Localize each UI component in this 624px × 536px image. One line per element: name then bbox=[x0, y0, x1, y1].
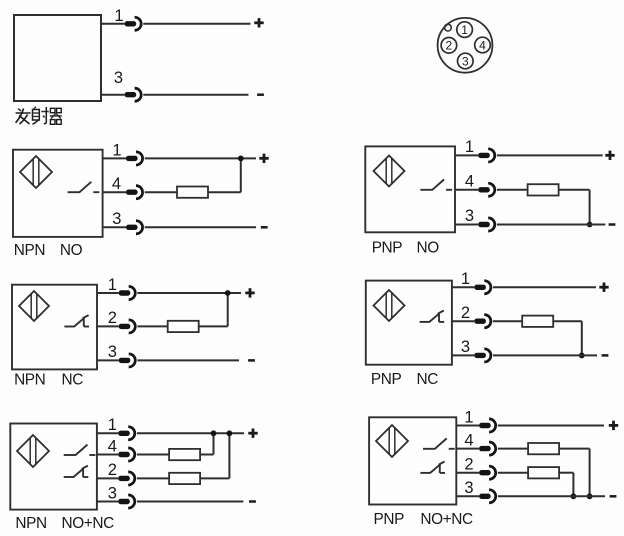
NPN-NO + terminal bbox=[259, 154, 268, 163]
PNP-NO+NC NC contact bbox=[420, 462, 445, 473]
PNP-NC pin 2 vertical wire bbox=[581, 321, 583, 355]
connector pin 2 circle bbox=[441, 38, 457, 54]
NPN-NC + terminal bbox=[245, 288, 254, 297]
svg-text:3: 3 bbox=[114, 69, 123, 87]
svg-text:1: 1 bbox=[112, 141, 121, 159]
svg-text:2: 2 bbox=[108, 461, 117, 479]
NPN-NC pin 2 contact pill bbox=[119, 324, 131, 329]
PNP-NO pin 3 contact pill bbox=[478, 222, 490, 227]
PNP-NO pin 4 contact pill bbox=[478, 187, 490, 192]
PNP-NO+NC pin 3 contact pill bbox=[479, 494, 491, 499]
label 发射器 (transmitter) bbox=[16, 107, 62, 125]
PNP-NO+NC + terminal bbox=[609, 421, 618, 430]
PNP-NC pin 2 contact pill bbox=[474, 319, 486, 324]
NPN-NO+NC pin 2 wire from box bbox=[97, 477, 118, 479]
NPN-NO pin 1 wire from box bbox=[103, 157, 126, 159]
PNP-NO pin 4 socket arc bbox=[488, 183, 495, 196]
PNP-NC pin 1 wire from box bbox=[452, 286, 474, 288]
NPN-NC pin 1 wire to terminal bbox=[137, 292, 241, 294]
PNP-NC junction dot pin 2 bbox=[579, 353, 585, 359]
NPN-NC pin 2 wire load to vertical bbox=[199, 325, 228, 327]
NPN-NO pin 4 wire to load bbox=[145, 191, 177, 193]
NPN-NO+NC pin 2 wire load to vertical bbox=[200, 477, 229, 479]
NPN-NO pin 1 contact pill bbox=[126, 156, 138, 161]
NPN-NO+NC pin 3 socket arc bbox=[128, 495, 135, 508]
svg-text:NPN: NPN bbox=[15, 515, 46, 532]
PNP-NC pin 2 socket arc bbox=[484, 315, 491, 328]
PNP-NO junction dot pin 4 bbox=[587, 222, 593, 228]
PNP-NO+NC sensor symbol (diamond) bbox=[376, 425, 408, 457]
PNP-NO+NC pin 1 wire from box bbox=[456, 425, 479, 427]
PNP-NO pin 1 wire to terminal bbox=[497, 154, 603, 156]
PNP-NO+NC pin 4 vertical wire bbox=[589, 449, 591, 497]
svg-text:PNP: PNP bbox=[372, 240, 403, 257]
svg-text:4: 4 bbox=[464, 431, 473, 449]
wire pin3 box to connector bbox=[101, 94, 125, 96]
NPN-NO+NC pin 4 vertical wire bbox=[213, 433, 215, 454]
connector pin1 contact pill bbox=[125, 21, 137, 26]
PNP-NO+NC pin 2 wire from box bbox=[456, 472, 479, 474]
svg-text:1: 1 bbox=[461, 270, 470, 288]
PNP-NO pin 3 wire from box bbox=[455, 224, 478, 226]
NPN-NO pin 4 wire load to vertical bbox=[208, 191, 241, 193]
connector pin3 contact pill bbox=[125, 92, 137, 97]
PNP-NO+NC pin 4 socket arc bbox=[489, 442, 496, 455]
svg-text:1: 1 bbox=[461, 23, 468, 37]
NPN-NC pin 1 socket arc bbox=[129, 286, 136, 299]
svg-text:3: 3 bbox=[465, 207, 474, 225]
PNP-NC pin 1 wire to terminal bbox=[493, 286, 596, 288]
NPN-NO - terminal bbox=[261, 226, 268, 229]
NPN-NO+NC pin 4 socket arc bbox=[128, 448, 135, 461]
NPN-NO pin 3 contact pill bbox=[126, 225, 138, 230]
PNP-NO+NC NO contact bbox=[423, 438, 455, 448]
PNP-NC pin 3 wire from box bbox=[452, 354, 474, 356]
PNP-NC pin 3 contact pill bbox=[474, 353, 486, 358]
svg-text:1: 1 bbox=[108, 276, 117, 294]
svg-text:3: 3 bbox=[108, 343, 117, 361]
NPN-NO load resistor (pin 4) bbox=[177, 187, 208, 198]
NPN-NO+NC - terminal bbox=[249, 500, 256, 503]
NPN-NO NO contact bbox=[68, 182, 100, 192]
NPN-NO pin 3 wire to terminal bbox=[145, 226, 256, 228]
svg-text:NPN: NPN bbox=[14, 242, 45, 259]
PNP-NC + terminal bbox=[599, 283, 608, 292]
svg-text:NC: NC bbox=[417, 371, 439, 388]
NPN-NO+NC NO contact bbox=[64, 445, 96, 455]
NPN-NO+NC pin 4 wire from box bbox=[97, 454, 118, 456]
PNP-NO pin 4 wire load to vertical bbox=[559, 189, 590, 191]
NPN-NO pin 4 socket arc bbox=[136, 186, 143, 199]
NPN-NO+NC pin 2 vertical wire bbox=[228, 433, 230, 478]
NPN-NO pin 1 wire to terminal bbox=[145, 157, 256, 159]
PNP-NO+NC pin 4 wire load to vertical bbox=[559, 448, 590, 450]
PNP-NC NC contact bbox=[420, 311, 445, 322]
svg-text:2: 2 bbox=[464, 456, 473, 474]
PNP-NC pin 2 wire from box bbox=[452, 320, 474, 322]
connector pin 3 circle bbox=[458, 53, 474, 69]
PNP-NO+NC pin 2 contact pill bbox=[479, 470, 491, 475]
NPN-NO+NC pin 2 wire to load bbox=[137, 477, 169, 479]
PNP-NC pin 3 wire to terminal bbox=[493, 354, 597, 356]
PNP-NO pin 4 wire to load bbox=[497, 189, 528, 191]
NPN-NO+NC pin 3 contact pill bbox=[118, 499, 130, 504]
NPN-NC NC contact bbox=[64, 315, 89, 326]
svg-text:PNP: PNP bbox=[374, 511, 405, 528]
NPN-NO+NC sensor box bbox=[10, 424, 97, 510]
svg-text:2: 2 bbox=[461, 304, 470, 322]
NPN-NC pin 2 wire to load bbox=[137, 325, 167, 327]
NPN-NC pin 2 socket arc bbox=[129, 320, 136, 333]
PNP-NO pin 1 socket arc bbox=[488, 149, 495, 162]
connector pin3 socket arc bbox=[135, 88, 142, 101]
NPN-NO pin 3 socket arc bbox=[136, 221, 143, 234]
PNP-NO sensor box bbox=[365, 146, 455, 232]
PNP-NC sensor symbol (diamond) bbox=[374, 290, 405, 321]
NPN-NO+NC junction dot pin 2 bbox=[227, 430, 233, 436]
svg-text:3: 3 bbox=[464, 479, 473, 497]
NPN-NO+NC load resistor (pin 4) bbox=[169, 449, 200, 460]
PNP-NC pin 1 socket arc bbox=[484, 281, 491, 294]
NPN-NC pin 2 vertical wire bbox=[227, 293, 229, 326]
svg-text:NPN: NPN bbox=[14, 372, 45, 389]
PNP-NC pin 2 wire to load bbox=[493, 320, 522, 322]
PNP-NO+NC load resistor (pin 4) bbox=[528, 443, 559, 454]
svg-text:NO: NO bbox=[417, 240, 440, 257]
PNP-NC pin 1 contact pill bbox=[474, 285, 486, 290]
svg-text:NC: NC bbox=[62, 372, 84, 389]
NPN-NO junction dot pin 4 bbox=[238, 156, 244, 162]
NPN-NC pin 3 socket arc bbox=[129, 354, 136, 367]
NPN-NO pin 4 vertical wire bbox=[240, 158, 242, 192]
PNP-NO sensor symbol (diamond) bbox=[374, 156, 405, 187]
NPN-NO+NC load resistor (pin 2) bbox=[169, 473, 200, 484]
svg-text:NO+NC: NO+NC bbox=[420, 511, 473, 528]
PNP-NC pin 3 socket arc bbox=[484, 349, 491, 362]
PNP-NO pin 4 vertical wire bbox=[589, 190, 591, 225]
connector pin1 socket arc bbox=[135, 17, 142, 30]
PNP-NO + terminal bbox=[605, 151, 614, 160]
NPN-NO sensor box bbox=[13, 150, 103, 237]
NPN-NC load resistor (pin 2) bbox=[168, 321, 199, 332]
PNP-NO+NC pin 1 socket arc bbox=[489, 419, 496, 432]
wire pin1 box to connector bbox=[101, 23, 125, 25]
svg-text:4: 4 bbox=[112, 175, 121, 193]
PNP-NC load resistor (pin 2) bbox=[522, 316, 553, 327]
NPN-NO pin 4 contact pill bbox=[126, 190, 138, 195]
NPN-NO+NC pin 2 socket arc bbox=[128, 472, 135, 485]
PNP-NO+NC load resistor (pin 2) bbox=[528, 467, 559, 478]
PNP-NO+NC junction dot pin 2 bbox=[571, 493, 577, 499]
NPN-NO pin 3 wire from box bbox=[103, 226, 126, 228]
PNP-NO+NC - terminal bbox=[610, 495, 617, 498]
NPN-NO pin 4 wire from box bbox=[103, 191, 126, 193]
NPN-NO pin 1 socket arc bbox=[136, 152, 143, 165]
svg-text:4: 4 bbox=[108, 437, 117, 455]
svg-text:3: 3 bbox=[108, 484, 117, 502]
svg-text:3: 3 bbox=[112, 210, 121, 228]
NPN-NO+NC NC contact bbox=[64, 466, 89, 477]
PNP-NO+NC pin 1 contact pill bbox=[479, 423, 491, 428]
PNP-NC sensor box bbox=[366, 281, 452, 365]
NPN-NO+NC pin 4 wire to load bbox=[137, 454, 169, 456]
connector keying notch bbox=[445, 24, 452, 31]
PNP-NO+NC junction dot pin 4 bbox=[587, 493, 593, 499]
PNP-NO load resistor (pin 4) bbox=[528, 184, 559, 195]
svg-text:3: 3 bbox=[461, 338, 470, 356]
NPN-NO+NC pin 2 contact pill bbox=[118, 476, 130, 481]
- terminal (row1) bbox=[257, 93, 264, 96]
PNP-NO pin 1 contact pill bbox=[478, 153, 490, 158]
M12 connector face outer circle bbox=[438, 18, 493, 73]
PNP-NO+NC pin 2 wire load to vertical bbox=[559, 472, 573, 474]
NPN-NO+NC pin 1 wire to terminal bbox=[137, 432, 244, 434]
NPN-NO+NC pin 3 wire to terminal bbox=[137, 501, 244, 503]
NPN-NC sensor symbol (diamond) bbox=[19, 291, 49, 321]
PNP-NO+NC pin 2 vertical wire bbox=[572, 473, 574, 497]
PNP-NO+NC pin 2 wire to load bbox=[498, 472, 528, 474]
PNP-NO+NC pin 3 wire to terminal bbox=[498, 495, 605, 497]
NPN-NO+NC pin 1 contact pill bbox=[118, 431, 130, 436]
PNP-NO+NC sensor box bbox=[369, 417, 456, 504]
PNP-NC - terminal bbox=[602, 354, 609, 357]
svg-text:1: 1 bbox=[464, 408, 473, 426]
NPN-NO+NC pin 1 socket arc bbox=[128, 427, 135, 440]
NPN-NC pin 3 wire from box bbox=[97, 359, 119, 361]
PNP-NC pin 2 wire load to vertical bbox=[553, 320, 582, 322]
svg-text:3: 3 bbox=[462, 54, 469, 68]
NPN-NC sensor box bbox=[12, 285, 97, 370]
NPN-NO+NC pin 3 wire from box bbox=[97, 501, 118, 503]
NPN-NO sensor symbol (diamond) bbox=[20, 156, 52, 188]
NPN-NC pin 1 wire from box bbox=[97, 292, 119, 294]
NPN-NO+NC pin 1 wire from box bbox=[97, 432, 118, 434]
PNP-NO+NC pin 3 socket arc bbox=[489, 490, 496, 503]
svg-text:2: 2 bbox=[108, 309, 117, 327]
NPN-NC pin 2 wire from box bbox=[97, 325, 119, 327]
NPN-NC - terminal bbox=[248, 359, 255, 362]
connector pin 4 circle bbox=[475, 37, 491, 53]
wire pin1 to + terminal bbox=[143, 23, 250, 25]
PNP-NO pin 3 wire to terminal bbox=[497, 224, 605, 226]
PNP-NO pin 3 socket arc bbox=[488, 218, 495, 231]
NPN-NC pin 3 wire to terminal bbox=[137, 359, 239, 361]
svg-text:PNP: PNP bbox=[371, 371, 402, 388]
NPN-NC pin 1 contact pill bbox=[119, 290, 131, 295]
wire pin3 to - terminal bbox=[143, 94, 248, 96]
PNP-NO+NC pin 4 contact pill bbox=[479, 446, 491, 451]
NPN-NO+NC sensor symbol (diamond) bbox=[17, 435, 49, 467]
NPN-NO+NC + terminal bbox=[248, 429, 257, 438]
svg-text:2: 2 bbox=[446, 39, 453, 53]
PNP-NO NO contact bbox=[420, 179, 452, 189]
connector pin 1 circle bbox=[457, 22, 473, 38]
svg-text:NO: NO bbox=[60, 242, 83, 259]
PNP-NO+NC pin 4 wire from box bbox=[456, 448, 479, 450]
transmitter box U1 (发射器) bbox=[14, 15, 101, 101]
PNP-NO+NC pin 3 wire from box bbox=[456, 495, 479, 497]
PNP-NO - terminal bbox=[609, 223, 616, 226]
NPN-NO+NC pin 4 wire load to vertical bbox=[200, 454, 213, 456]
svg-text:1: 1 bbox=[108, 416, 117, 434]
NPN-NC junction dot pin 2 bbox=[225, 290, 231, 296]
PNP-NO+NC pin 1 wire to terminal bbox=[498, 425, 604, 427]
NPN-NO+NC pin 4 contact pill bbox=[118, 452, 130, 457]
svg-text:4: 4 bbox=[479, 38, 486, 52]
svg-text:1: 1 bbox=[465, 138, 474, 156]
svg-text:NO+NC: NO+NC bbox=[62, 515, 115, 532]
PNP-NO+NC pin 4 wire to load bbox=[498, 448, 528, 450]
+ terminal (row1) bbox=[254, 18, 263, 27]
svg-text:4: 4 bbox=[465, 173, 474, 191]
NPN-NO+NC junction dot pin 4 bbox=[211, 430, 217, 436]
PNP-NO pin 4 wire from box bbox=[455, 189, 478, 191]
svg-text:1: 1 bbox=[114, 7, 123, 25]
NPN-NC pin 3 contact pill bbox=[119, 358, 131, 363]
PNP-NO pin 1 wire from box bbox=[455, 154, 478, 156]
PNP-NO+NC pin 2 socket arc bbox=[489, 466, 496, 479]
